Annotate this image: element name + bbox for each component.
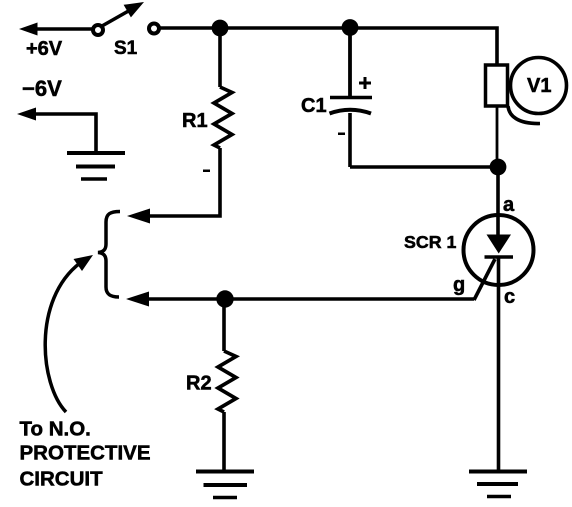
svg-text:+6V: +6V [26, 38, 63, 60]
svg-text:a: a [503, 194, 515, 216]
svg-text:R1: R1 [182, 110, 208, 132]
svg-text:To N.O.: To N.O. [20, 418, 91, 441]
svg-text:−6V: −6V [22, 76, 62, 101]
svg-text:g: g [453, 274, 465, 296]
svg-text:R2: R2 [186, 373, 212, 395]
svg-text:SCR 1: SCR 1 [404, 232, 456, 252]
svg-text:V1: V1 [527, 75, 551, 97]
svg-text:c: c [504, 286, 515, 308]
svg-text:C1: C1 [301, 95, 327, 117]
svg-text:S1: S1 [114, 38, 138, 59]
svg-text:CIRCUIT: CIRCUIT [20, 468, 104, 491]
svg-text:PROTECTIVE: PROTECTIVE [20, 442, 151, 465]
